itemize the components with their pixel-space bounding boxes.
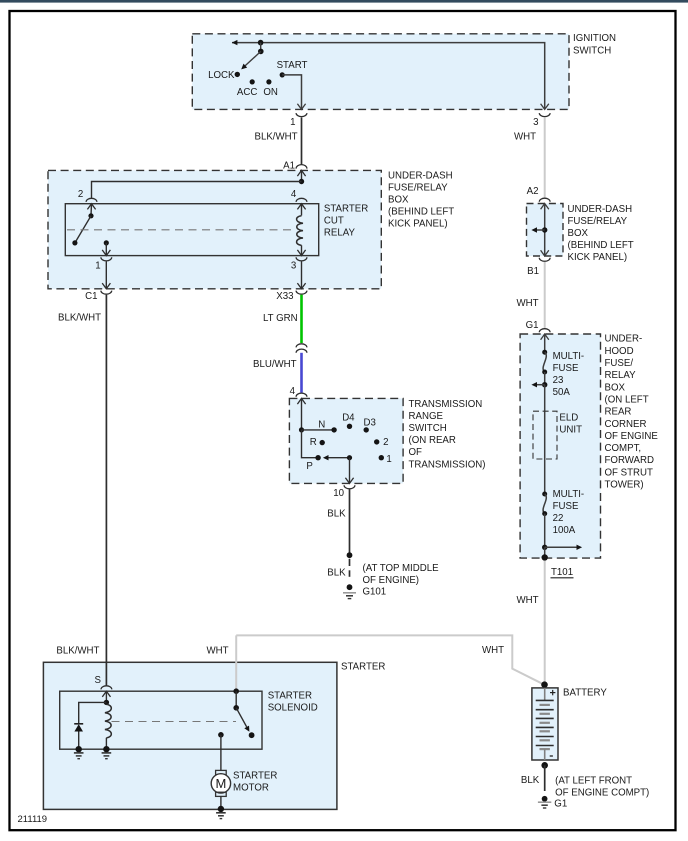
svg-text:(ON REAR: (ON REAR xyxy=(409,435,456,446)
svg-text:G101: G101 xyxy=(363,586,387,597)
arrow ignition feed left xyxy=(232,40,238,45)
node switch common xyxy=(299,427,304,432)
wire switch feed xyxy=(235,691,237,708)
wire BLK pin10 down xyxy=(349,489,351,555)
ELD unit box xyxy=(533,411,557,459)
svg-text:OF: OF xyxy=(409,447,423,458)
wire fuse23 to junction xyxy=(544,372,546,385)
svg-text:MULTI-: MULTI- xyxy=(553,351,585,362)
svg-text:FUSE/RELAY: FUSE/RELAY xyxy=(388,182,448,193)
svg-text:50A: 50A xyxy=(553,387,571,398)
svg-text:SOLENOID: SOLENOID xyxy=(268,702,318,713)
wire pivot to pin 10 xyxy=(349,458,351,484)
svg-text:BLU/WHT: BLU/WHT xyxy=(253,359,297,370)
contact ON xyxy=(266,79,271,84)
svg-text:FUSE/RELAY: FUSE/RELAY xyxy=(568,216,628,227)
svg-text:MOTOR: MOTOR xyxy=(233,783,269,794)
svg-text:1: 1 xyxy=(386,454,391,465)
svg-text:G1: G1 xyxy=(526,320,539,331)
under-dash fuse/relay box (right) xyxy=(527,204,564,257)
svg-text:(BEHIND LEFT: (BEHIND LEFT xyxy=(388,207,454,218)
svg-text:FUSE/: FUSE/ xyxy=(605,358,634,369)
branch arrow right xyxy=(545,546,578,548)
svg-text:FUSE: FUSE xyxy=(553,363,579,374)
svg-text:2: 2 xyxy=(78,189,83,200)
svg-text:STARTER: STARTER xyxy=(324,204,368,215)
wire WHT pin3 to A2 xyxy=(544,117,546,197)
wire S into solenoid xyxy=(105,691,107,702)
solenoid mech dashed link xyxy=(112,721,237,723)
starter motor M1 xyxy=(216,770,227,774)
svg-text:STARTER: STARTER xyxy=(341,662,385,673)
ground starter motor xyxy=(216,812,226,814)
svg-text:RELAY: RELAY xyxy=(324,227,356,238)
wire G1 into box xyxy=(541,334,549,340)
svg-text:P: P xyxy=(306,461,312,472)
branch arrow left 2 xyxy=(536,384,545,386)
wire junction down xyxy=(544,385,546,494)
node battery positive xyxy=(541,681,548,688)
svg-text:UNDER-: UNDER- xyxy=(605,334,643,345)
svg-text:FORWARD: FORWARD xyxy=(605,455,655,466)
svg-text:START: START xyxy=(277,60,308,71)
svg-text:R: R xyxy=(310,437,317,448)
svg-text:BOX: BOX xyxy=(388,195,409,206)
wire WHT horizontal run xyxy=(236,635,543,684)
node motor feed xyxy=(218,732,224,738)
wire WHT B1 to G1 xyxy=(544,262,546,329)
svg-text:RANGE: RANGE xyxy=(409,411,444,422)
svg-text:3: 3 xyxy=(291,260,296,271)
wire pin4 into switch xyxy=(301,398,303,430)
wire BLK/WHT pin1 to A1 xyxy=(301,117,303,164)
connector A1 xyxy=(296,165,307,169)
svg-text:COMPT,: COMPT, xyxy=(605,443,642,454)
contact START xyxy=(280,72,285,77)
starter box xyxy=(43,662,337,809)
svg-text:CORNER: CORNER xyxy=(605,419,647,430)
wire WHT into starter box xyxy=(235,635,237,690)
svg-text:X33: X33 xyxy=(276,291,293,302)
wire common to N contact xyxy=(302,429,335,431)
svg-text:D3: D3 xyxy=(364,418,376,429)
svg-text:MULTI-: MULTI- xyxy=(553,489,585,500)
under-hood fuse/relay box xyxy=(520,334,600,558)
svg-text:UNDER-DASH: UNDER-DASH xyxy=(568,204,633,215)
node T101 junction xyxy=(542,545,547,550)
multi-fuse 22 100A xyxy=(542,492,547,497)
wire BLU/WHT down to pin 4 xyxy=(300,353,303,393)
svg-text:BLK/WHT: BLK/WHT xyxy=(255,132,298,143)
node wiper pivot xyxy=(347,455,352,460)
contact 1 xyxy=(379,455,384,460)
pin 3 relay bottom xyxy=(296,257,307,261)
svg-text:UNDER-DASH: UNDER-DASH xyxy=(388,170,453,181)
connector C1 xyxy=(101,291,112,295)
svg-text:A2: A2 xyxy=(527,186,539,197)
ignition switch box xyxy=(192,34,569,110)
svg-text:BOX: BOX xyxy=(568,228,589,239)
wire motor feed xyxy=(220,735,222,771)
svg-text:C1: C1 xyxy=(85,291,97,302)
svg-text:B1: B1 xyxy=(527,266,539,277)
node solenoid ground 1 xyxy=(76,746,82,752)
wire to box edge xyxy=(544,547,546,557)
svg-text:CUT: CUT xyxy=(324,216,344,227)
svg-text:M: M xyxy=(215,776,226,791)
contact 2 xyxy=(374,439,379,444)
svg-text:WHT: WHT xyxy=(514,132,536,143)
svg-text:A1: A1 xyxy=(283,161,295,172)
svg-text:IGNITION: IGNITION xyxy=(573,33,616,44)
svg-text:LT GRN: LT GRN xyxy=(263,313,298,324)
svg-text:ON: ON xyxy=(263,87,278,98)
svg-text:WHT: WHT xyxy=(517,298,539,309)
ground solenoid 2 xyxy=(102,752,112,754)
node solenoid switch pivot xyxy=(233,705,239,711)
svg-text:TRANSMISSION): TRANSMISSION) xyxy=(409,459,486,470)
relay mech dashed link xyxy=(67,229,295,231)
diode D1 xyxy=(74,723,83,725)
ignition rotor arm xyxy=(245,51,261,66)
svg-text:OF ENGINE: OF ENGINE xyxy=(605,431,659,442)
node A1 junction xyxy=(299,179,304,184)
node solenoid switch top xyxy=(233,688,239,694)
svg-text:N: N xyxy=(318,420,325,431)
wire pin3 to X33 xyxy=(301,262,303,289)
connector X33 xyxy=(296,291,307,295)
svg-text:23: 23 xyxy=(553,375,564,386)
multi-fuse 23 50A xyxy=(542,350,547,355)
contact D4 xyxy=(347,424,352,429)
node battery negative xyxy=(541,762,548,769)
svg-text:STARTER: STARTER xyxy=(268,690,312,701)
node fuse23 junction xyxy=(542,382,547,387)
svg-text:SWITCH: SWITCH xyxy=(573,45,611,56)
svg-text:WHT: WHT xyxy=(517,595,539,606)
wire A1 to node xyxy=(301,170,303,181)
starter cut relay box xyxy=(65,204,318,256)
svg-text:(BEHIND LEFT: (BEHIND LEFT xyxy=(568,240,634,251)
svg-text:G1: G1 xyxy=(554,798,567,809)
svg-text:RELAY: RELAY xyxy=(605,370,637,381)
wire node to pin 2 xyxy=(92,182,302,199)
pin 3 ignition xyxy=(541,104,549,110)
node solenoid coil top xyxy=(104,700,109,705)
svg-text:BOX: BOX xyxy=(605,382,626,393)
relay switch arm xyxy=(75,216,91,243)
node ignition pivot xyxy=(258,40,264,46)
svg-text:1: 1 xyxy=(290,117,295,128)
wire inside A2 box xyxy=(541,204,549,210)
svg-text:100A: 100A xyxy=(553,525,576,536)
svg-text:3: 3 xyxy=(533,117,538,128)
node T101 xyxy=(542,554,548,560)
wire to diode branch xyxy=(79,702,107,723)
battery B1 box xyxy=(532,688,558,760)
svg-text:LOCK: LOCK xyxy=(208,70,235,81)
battery minus sign xyxy=(550,755,553,757)
svg-text:KICK PANEL): KICK PANEL) xyxy=(388,219,448,230)
node BLK junction xyxy=(347,552,353,558)
page top rule xyxy=(0,0,688,3)
svg-text:STARTER: STARTER xyxy=(233,770,277,781)
svg-text:WHT: WHT xyxy=(482,645,504,656)
contact N xyxy=(331,427,336,432)
contact D3 xyxy=(364,427,369,432)
contact P xyxy=(315,455,320,460)
svg-text:BLK/WHT: BLK/WHT xyxy=(58,312,101,323)
relay switch contact xyxy=(90,204,93,216)
svg-text:FUSE: FUSE xyxy=(553,501,579,512)
wire pin1 to C1 xyxy=(105,262,107,289)
relay pin1 contact xyxy=(104,240,109,245)
transmission range switch box xyxy=(289,398,403,483)
svg-text:ACC: ACC xyxy=(237,87,257,98)
inline connector pair xyxy=(296,344,307,348)
svg-text:OF ENGINE COMPT): OF ENGINE COMPT) xyxy=(555,788,649,799)
contact ACC xyxy=(250,79,255,84)
relay coil xyxy=(301,204,303,216)
svg-text:TOWER): TOWER) xyxy=(605,480,644,491)
svg-text:D4: D4 xyxy=(342,413,355,424)
svg-text:S: S xyxy=(95,675,102,686)
svg-text:BLK/WHT: BLK/WHT xyxy=(56,646,99,657)
ground G1 xyxy=(542,796,548,802)
wire START to pin 1 xyxy=(282,75,301,110)
wire common down to P branch xyxy=(302,430,319,458)
contact solenoid out xyxy=(249,732,255,738)
ground solenoid 1 xyxy=(74,752,84,754)
pin 1 ignition xyxy=(297,104,305,110)
ground G101 xyxy=(347,584,353,590)
wire BLK battery to ground xyxy=(544,765,546,791)
svg-text:BLK: BLK xyxy=(327,567,346,578)
svg-text:OF ENGINE): OF ENGINE) xyxy=(363,575,420,586)
wire BLK/WHT C1 to starter S xyxy=(105,295,107,686)
svg-text:KICK PANEL): KICK PANEL) xyxy=(568,252,628,263)
contact R xyxy=(320,440,325,445)
svg-text:BATTERY: BATTERY xyxy=(563,688,607,699)
svg-text:22: 22 xyxy=(553,513,564,524)
svg-text:10: 10 xyxy=(333,488,344,499)
svg-text:TRANSMISSION: TRANSMISSION xyxy=(409,399,483,410)
battery plus sign xyxy=(550,692,555,694)
wire motor to ground xyxy=(220,796,222,807)
node solenoid ground 2 xyxy=(103,746,109,752)
battery cell plates xyxy=(544,688,546,701)
svg-text:REAR: REAR xyxy=(605,407,632,418)
svg-text:4: 4 xyxy=(290,386,296,397)
wire fuse22 down xyxy=(544,514,546,548)
svg-text:SWITCH: SWITCH xyxy=(409,423,447,434)
svg-text:OF STRUT: OF STRUT xyxy=(605,467,654,478)
wire WHT T101 to battery xyxy=(544,561,546,682)
svg-text:BLK: BLK xyxy=(327,509,346,520)
node motor ground xyxy=(218,806,224,812)
under-dash fuse/relay box (left) xyxy=(48,170,381,288)
svg-text:211119: 211119 xyxy=(18,814,48,825)
switch wiper arm xyxy=(328,457,350,459)
solenoid coil xyxy=(105,704,111,738)
pin 1 relay bottom xyxy=(101,257,112,261)
svg-text:4: 4 xyxy=(291,189,297,200)
svg-text:ELD: ELD xyxy=(559,412,578,423)
svg-text:(AT TOP MIDDLE: (AT TOP MIDDLE xyxy=(363,563,440,574)
connector B1 xyxy=(539,258,550,262)
svg-text:(ON LEFT: (ON LEFT xyxy=(605,394,649,405)
solenoid switch arm xyxy=(236,708,247,727)
branch arrow left xyxy=(536,229,545,231)
svg-text:(AT LEFT FRONT: (AT LEFT FRONT xyxy=(555,775,632,786)
wire ignition feed (top run to pin 3) xyxy=(232,43,545,110)
node A2 box junction xyxy=(542,227,547,232)
contact LOCK xyxy=(235,72,240,77)
starter solenoid box xyxy=(60,691,262,749)
svg-text:HOOD: HOOD xyxy=(605,346,634,357)
svg-text:WHT: WHT xyxy=(207,646,229,657)
wire LT GRN X33 down xyxy=(300,295,303,343)
wire stub to G101 xyxy=(349,559,351,566)
svg-text:UNIT: UNIT xyxy=(559,424,582,435)
svg-text:2: 2 xyxy=(383,437,388,448)
svg-text:T101: T101 xyxy=(551,567,573,578)
svg-text:BLK: BLK xyxy=(521,775,540,786)
svg-text:1: 1 xyxy=(95,260,100,271)
